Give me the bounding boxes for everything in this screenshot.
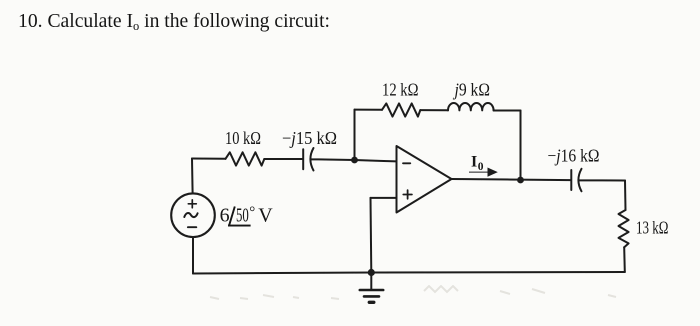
voltage source tilde: [184, 213, 197, 217]
ground node junction dot: [368, 269, 375, 276]
capacitor C1 -j15 kOhm: [303, 148, 354, 171]
bottom rail wire: [193, 272, 625, 274]
svg-text:13 kΩ: 13 kΩ: [636, 218, 669, 238]
faint ghost marks: [210, 286, 616, 299]
wire resistor to capacitor -j15: [264, 158, 303, 160]
svg-text:6: 6: [220, 205, 230, 227]
op-amp plus sign: [403, 190, 412, 199]
svg-text:0: 0: [478, 161, 484, 173]
right vertical wire down to 13k resistor: [624, 181, 627, 211]
svg-text:10. Calculate Io in the follow: 10. Calculate Io in the following circui…: [18, 10, 330, 33]
wire source bottom to bottom rail: [192, 237, 194, 273]
output node junction dot: [517, 177, 524, 184]
capacitor C2 -j16 kOhm: [571, 169, 625, 192]
svg-text:j9 kΩ: j9 kΩ: [453, 80, 490, 100]
wire top-left corner to 10k resistor: [192, 158, 226, 160]
source angle underline: [228, 225, 251, 227]
node A junction dot: [351, 157, 358, 164]
feedback top wire left segment: [355, 109, 383, 111]
ground stem: [370, 273, 372, 290]
svg-text:12 kΩ: 12 kΩ: [382, 80, 419, 100]
svg-text:50: 50: [236, 205, 249, 227]
wire node A up to feedback rail: [354, 110, 356, 160]
voltage source V1 circle: [171, 193, 215, 237]
op-amp U1 triangle: [397, 146, 452, 213]
wire node A to op-amp inverting input: [355, 160, 397, 161]
vertical wire noninverting input down to ground node: [370, 198, 373, 273]
ground bar 3: [369, 301, 374, 304]
svg-text:V: V: [258, 205, 273, 227]
voltage source minus sign: [188, 226, 196, 228]
resistor 13 kOhm: [619, 210, 629, 247]
current Io arrow: [469, 172, 489, 173]
left vertical wire from corner to source top: [191, 159, 194, 194]
svg-text:I: I: [471, 153, 477, 170]
voltage source plus sign: [188, 200, 196, 208]
svg-text:°: °: [249, 205, 255, 221]
feedback wire inductor to right corner: [494, 110, 521, 112]
op-amp minus sign: [403, 162, 410, 164]
op-amp output wire to capacitor -j16: [452, 179, 572, 180]
wire op-amp noninverting input: [371, 197, 397, 199]
svg-text:−j15 kΩ: −j15 kΩ: [282, 128, 337, 148]
inductor j9 kOhm: [448, 103, 494, 111]
svg-text:10 kΩ: 10 kΩ: [225, 128, 261, 148]
svg-text:−j16 kΩ: −j16 kΩ: [548, 146, 600, 166]
feedback wire resistor to inductor: [420, 109, 448, 111]
wire 13k resistor to bottom rail: [623, 247, 626, 272]
feedback right vertical wire down to output node: [520, 111, 522, 181]
resistor 12 kOhm: [382, 103, 420, 116]
ground bar 1: [360, 289, 383, 292]
resistor 10 kOhm: [226, 152, 265, 165]
ground bar 2: [364, 295, 379, 298]
